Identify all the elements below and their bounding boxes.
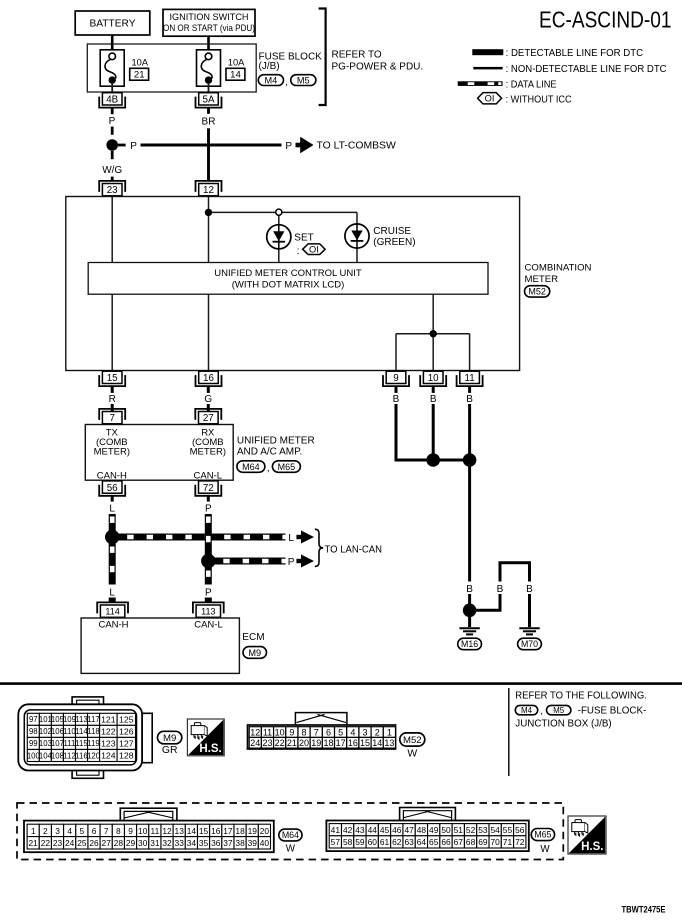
meter connector view M52 [248,713,396,749]
note refer to pg-power [332,50,424,73]
arrow to LT-COMBSW [296,137,314,154]
ground ref M16 [458,638,482,650]
svg-text:69: 69 [478,837,488,847]
H.S. icon [568,816,606,854]
wire stub to ground M16 [468,615,471,627]
svg-text:32: 32 [162,838,172,848]
svg-text:TO LAN-CAN: TO LAN-CAN [325,545,383,556]
wire loop to ground M70 [470,563,537,627]
svg-text:109: 109 [63,715,76,724]
data line P vertical lower [200,565,218,604]
connector terminal 113 [193,602,224,617]
svg-text:19: 19 [248,826,258,836]
svg-text:SET: SET [294,233,313,244]
amp pin labels [94,427,226,481]
svg-text:61: 61 [380,837,390,847]
svg-text:31: 31 [150,838,160,848]
unified meter control unit box [88,263,488,295]
svg-text:21: 21 [134,70,145,81]
svg-text:9: 9 [128,826,133,836]
data line P vertical upper [205,514,212,558]
svg-text:M52: M52 [403,735,422,746]
svg-text:UNIFIED METER: UNIFIED METER [237,435,315,446]
legend: data line [458,79,557,90]
svg-text:49: 49 [429,825,439,835]
wire between ground junctions [433,459,469,462]
wire ignition switch to fuse block [207,36,210,53]
label SET [294,233,313,244]
svg-text:28: 28 [114,838,124,848]
wire battery to fuse block [111,35,114,53]
svg-text:,: , [285,77,288,88]
LED indicator CRUISE [345,224,369,248]
wire B down to ground M16 [462,460,478,605]
svg-text:99: 99 [29,739,38,748]
svg-text:26: 26 [89,838,99,848]
battery [75,11,150,35]
svg-text:W: W [286,844,296,855]
svg-text:25: 25 [77,838,87,848]
svg-text:11: 11 [263,728,272,738]
svg-text:BR: BR [202,117,216,128]
fuse number box 14 [226,68,245,80]
junction node P [106,139,118,151]
svg-text:B: B [466,584,473,595]
svg-text:33: 33 [175,838,185,848]
svg-text:16: 16 [348,738,358,748]
svg-text:P: P [130,141,137,152]
connector ref M9 [243,647,267,659]
svg-text:51: 51 [454,825,464,835]
svg-text:3: 3 [55,826,60,836]
connector ref M64 [237,461,265,473]
svg-text:53: 53 [478,825,488,835]
svg-text:21: 21 [29,838,39,848]
svg-text:58: 58 [343,837,353,847]
svg-text:120: 120 [87,751,101,760]
svg-text:17: 17 [336,738,346,748]
svg-text:P: P [205,504,212,515]
svg-text:9: 9 [393,373,398,384]
junction node ground branch [430,330,437,337]
data line L vertical upper [109,514,116,534]
svg-text:14: 14 [230,70,241,81]
svg-text:1: 1 [31,826,36,836]
ground M70 [519,628,539,634]
svg-text:10A: 10A [228,58,245,68]
svg-text:M9: M9 [248,648,261,658]
svg-text:6: 6 [326,728,331,738]
svg-text:5A: 5A [203,95,215,106]
svg-text:: NON-DETECTABLE LINE FOR DTC: : NON-DETECTABLE LINE FOR DTC [506,64,668,75]
data line P horizontal to LAN-CAN [208,558,285,565]
connector terminal 5A [196,93,222,108]
connector terminal 15 [99,371,125,386]
svg-text:M4: M4 [521,706,533,715]
svg-text:8: 8 [116,826,121,836]
svg-text:117: 117 [87,715,99,724]
drawing code TBWT2475E [622,904,666,914]
svg-text:54: 54 [491,825,501,835]
svg-text:112: 112 [63,751,75,760]
wire BR from 5A to 12 [202,108,216,181]
svg-text:66: 66 [441,837,451,847]
label fuse block [578,706,647,717]
svg-text:6: 6 [92,826,97,836]
svg-text:IGNITION SWITCH: IGNITION SWITCH [170,12,249,22]
connector terminal 16 [196,371,222,386]
svg-text:123: 123 [101,739,116,749]
connector terminal 11 [457,371,483,386]
svg-text:119: 119 [87,739,99,748]
svg-text:12: 12 [250,728,260,738]
svg-text:REFER TO: REFER TO [332,50,382,61]
svg-text:126: 126 [119,727,134,737]
svg-text:42: 42 [343,825,353,835]
ground M16 [459,628,479,634]
svg-text:W: W [540,844,550,855]
svg-text:METER): METER) [190,447,226,458]
connector terminal 4B [99,93,125,108]
svg-text:9: 9 [289,728,294,738]
svg-text:118: 118 [87,727,99,736]
svg-text:98: 98 [29,727,38,736]
wire control unit to 15 [111,294,113,370]
svg-text:M64: M64 [282,830,299,840]
ECM connector view M9 [18,697,152,778]
connector terminal 72 [195,481,221,496]
svg-text:124: 124 [101,751,116,761]
svg-text:7: 7 [109,413,114,424]
amp connector view M65 [326,808,528,852]
svg-text:46: 46 [392,825,402,835]
svg-text:(GREEN): (GREEN) [373,237,415,248]
svg-text:27: 27 [203,413,214,424]
label L arrow [288,531,314,544]
legend: non-detectable line for DTC [473,64,667,75]
svg-text:10: 10 [428,373,439,384]
svg-text:-FUSE BLOCK-: -FUSE BLOCK- [578,706,647,717]
svg-text:70: 70 [491,837,501,847]
svg-text:ECM: ECM [242,632,264,643]
wire B from 10 [430,386,437,460]
svg-text:63: 63 [404,837,414,847]
wire branch to indicators [209,212,358,262]
svg-text:40: 40 [260,838,270,848]
label unified meter and A/C amp [237,435,315,457]
label TO LT-COMBSW [317,141,396,152]
svg-text:M9: M9 [163,733,176,744]
connector ref M64 [279,829,302,841]
svg-text:127: 127 [119,739,134,749]
wire W/G to connector 23 (dashed) [102,151,122,181]
svg-text:M65: M65 [534,830,551,840]
svg-text:L: L [288,533,294,544]
brace TO LAN-CAN [315,529,323,566]
svg-text:56: 56 [107,483,118,494]
connector ref M4 [515,705,537,715]
svg-text:AND A/C AMP.: AND A/C AMP. [237,446,302,457]
svg-text:17: 17 [223,826,233,836]
connector ref M9 [158,731,182,744]
svg-text:TBWT2475E: TBWT2475E [622,904,666,914]
comma [285,77,288,88]
svg-text:35: 35 [199,838,209,848]
legend: without ICC symbol [478,93,572,106]
connector terminal 23 [99,181,125,196]
svg-text:(J/B): (J/B) [259,61,280,72]
svg-text:12: 12 [203,185,214,196]
svg-text:11: 11 [151,826,160,836]
svg-text:45: 45 [380,825,390,835]
svg-text:P: P [109,116,116,127]
svg-text:19: 19 [311,738,321,748]
junction node at M16 [463,604,477,618]
junction node B2 [463,453,477,467]
bracket refer to pg-power [319,9,326,106]
svg-text:34: 34 [187,838,197,848]
svg-text:W/G: W/G [102,165,122,176]
svg-text:59: 59 [355,837,365,847]
svg-text:13: 13 [384,738,394,748]
junction node P [201,554,215,568]
svg-text:2: 2 [43,826,48,836]
svg-text:71: 71 [503,837,513,847]
amp connector view M64 [24,808,274,852]
svg-text:L: L [109,587,115,598]
svg-text:CAN-H: CAN-H [98,620,128,631]
svg-text:JUNCTION BOX (J/B): JUNCTION BOX (J/B) [515,718,611,729]
svg-text:64: 64 [417,837,427,847]
ignition switch [163,9,255,36]
connector ref M65 [531,829,554,841]
svg-text:TO LT-COMBSW: TO LT-COMBSW [317,141,396,152]
connector terminal 9 [383,371,409,386]
svg-text:72: 72 [515,837,525,847]
connector terminal 7 [99,409,125,424]
svg-text:30: 30 [138,838,148,848]
svg-text:18: 18 [235,826,245,836]
svg-text:H.S.: H.S. [199,743,221,755]
svg-text:M64: M64 [242,462,260,472]
svg-text:36: 36 [211,838,221,848]
connector ref M5 [547,705,571,715]
svg-text:116: 116 [75,751,87,760]
svg-text:3: 3 [363,728,368,738]
wire fuse 21 to 4B [111,84,113,94]
open node SET branch [276,209,282,215]
connector ref M52 [400,733,425,746]
fuse block label [259,51,323,72]
svg-text:65: 65 [429,837,439,847]
combination meter box M52 [66,197,520,371]
divider line [508,688,510,776]
svg-text:22: 22 [275,738,285,748]
svg-text:CAN-H: CAN-H [97,470,127,481]
svg-text:62: 62 [392,837,402,847]
svg-text:16: 16 [211,826,221,836]
svg-text:13: 13 [175,826,185,836]
svg-text:7: 7 [314,728,319,738]
svg-text:: WITHOUT ICC: : WITHOUT ICC [506,95,572,106]
label W [286,844,296,855]
separator line [0,682,682,685]
svg-text:11: 11 [465,373,475,384]
connector terminal 12 [196,181,222,196]
svg-text:21: 21 [287,738,297,748]
svg-text:38: 38 [235,838,245,848]
fuse block J/B box [87,44,256,92]
svg-text:ON OR START (via PDU): ON OR START (via PDU) [163,23,255,33]
svg-text:CRUISE: CRUISE [373,226,411,237]
svg-text:B: B [466,394,473,405]
connector terminal 27 [195,409,221,424]
svg-text:106: 106 [51,727,64,736]
svg-text:122: 122 [101,727,116,737]
svg-text:4: 4 [67,826,72,836]
junction node on wire 12 [205,209,212,216]
svg-text:B: B [393,394,400,405]
svg-text:L: L [109,504,115,515]
svg-text:M52: M52 [528,287,546,297]
label junction box [515,718,611,729]
junction node L [105,530,119,544]
connector ref M65 [272,461,300,473]
svg-text:METER: METER [525,274,559,285]
data line L vertical lower [104,541,122,604]
dashed harness box [17,803,563,860]
svg-text:23: 23 [107,185,118,196]
svg-text:20: 20 [299,738,309,748]
svg-text:P: P [205,587,212,598]
comma [540,706,543,717]
svg-text::: : [297,246,300,257]
svg-text:,: , [267,463,270,474]
svg-text:15: 15 [360,738,370,748]
svg-text:M16: M16 [461,639,478,649]
svg-text:29: 29 [126,838,136,848]
connector terminal 56 [99,481,125,496]
svg-text:22: 22 [41,838,51,848]
wire 23 to control unit [111,197,113,263]
svg-text:39: 39 [248,838,258,848]
svg-text:24: 24 [250,738,260,748]
wire 12 to control unit [208,197,210,263]
comma [267,463,270,474]
svg-text:M65: M65 [278,462,296,472]
svg-text:B: B [430,394,437,405]
svg-text:48: 48 [417,825,427,835]
fuse value 10A [132,58,149,68]
svg-text:56: 56 [515,825,525,835]
svg-text:14: 14 [187,826,197,836]
svg-text:UNIFIED METER CONTROL UNIT: UNIFIED METER CONTROL UNIT [214,268,362,279]
note refer to the following [515,691,647,702]
svg-text:: DATA LINE: : DATA LINE [506,79,557,90]
svg-text:5: 5 [80,826,85,836]
wire P from 4B (dashed) [109,108,116,135]
svg-text:15: 15 [199,826,209,836]
svg-text:REFER TO THE FOLLOWING.: REFER TO THE FOLLOWING. [515,691,647,702]
svg-text:55: 55 [503,825,513,835]
svg-text:2: 2 [375,728,380,738]
svg-text:107: 107 [51,739,64,748]
svg-text:44: 44 [368,825,378,835]
svg-text:125: 125 [119,714,134,724]
label W [407,748,417,759]
svg-text:50: 50 [441,825,451,835]
svg-text:47: 47 [404,825,414,835]
svg-text:10A: 10A [132,58,149,68]
svg-text:1: 1 [387,728,392,738]
wire R 15 to 7 [109,386,116,411]
svg-text:7: 7 [104,826,109,836]
svg-text:5: 5 [338,728,343,738]
title EC-ASCIND-01 [539,7,672,33]
svg-text:OI: OI [309,245,319,255]
H.S. icon [187,719,224,756]
svg-text:(WITH DOT MATRIX LCD): (WITH DOT MATRIX LCD) [232,279,345,290]
wire fuse 14 to 5A [208,84,210,94]
svg-text:113: 113 [75,715,87,724]
wire B from 9 [393,386,434,460]
svg-text:P: P [288,557,295,568]
svg-text:27: 27 [102,838,112,848]
svg-text:BATTERY: BATTERY [89,19,135,30]
svg-text:114: 114 [105,606,119,616]
ECM box [81,618,239,673]
wire P data stub below 72 [205,496,212,515]
svg-text:128: 128 [119,751,134,761]
connector ref M4 [258,75,283,86]
connector terminal 10 [420,371,446,386]
wire B from 11 [466,386,473,460]
wire L data stub below 56 [109,496,115,515]
svg-text:108: 108 [51,751,64,760]
svg-text:CAN-L: CAN-L [194,470,223,481]
svg-text:43: 43 [355,825,365,835]
without ICC marker for SET [297,244,325,257]
svg-text:H.S.: H.S. [581,841,603,853]
label TO LAN-CAN [325,545,383,556]
svg-text:4: 4 [350,728,355,738]
data line L horizontal to LAN-CAN [112,534,285,541]
svg-text:OI: OI [485,94,495,104]
svg-text:52: 52 [466,825,476,835]
ECM pin labels [98,620,222,631]
svg-text:M4: M4 [265,75,278,85]
svg-text:M70: M70 [521,639,538,649]
svg-text:B: B [497,584,504,595]
svg-text:20: 20 [260,826,270,836]
svg-text:P: P [285,141,292,152]
svg-text:B: B [526,584,533,595]
svg-text:R: R [109,394,116,405]
wire control unit ground branch [396,294,470,370]
junction node B1 [426,453,440,467]
fuse number box 21 [130,68,149,80]
svg-text:24: 24 [65,838,75,848]
svg-text:23: 23 [262,738,272,748]
svg-text:M5: M5 [553,706,565,715]
svg-text:COMBINATION: COMBINATION [525,262,592,273]
svg-text:8: 8 [302,728,307,738]
fuse value 10A [228,58,245,68]
svg-text:,: , [540,706,543,717]
label P arrow [288,555,314,568]
svg-text:111: 111 [64,739,76,748]
svg-text:M5: M5 [297,75,310,85]
